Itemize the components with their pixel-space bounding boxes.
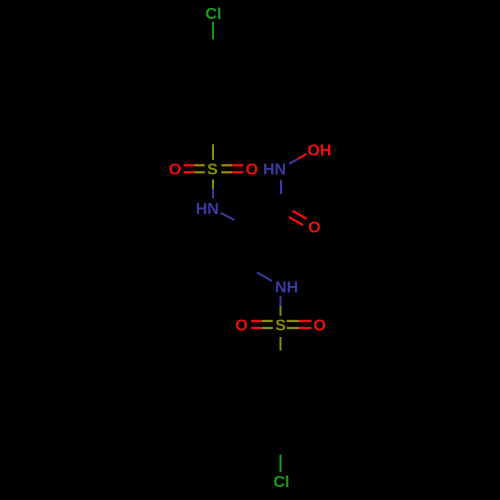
benzene ring 1 (carbon bonds, black on black): [179, 52, 247, 130]
svg-text:Cl: Cl: [205, 6, 221, 23]
svg-text:O: O: [235, 317, 247, 334]
bond C2-C4: [246, 228, 248, 267]
bond C2-C3: [247, 208, 281, 228]
bond S2-C(ring2): [280, 337, 282, 351]
bond C4-N3: [247, 267, 257, 273]
double bond S1=O (left): [184, 164, 195, 166]
svg-text:S: S: [207, 162, 218, 179]
double bond S1=O (right): [221, 164, 232, 166]
bond C3-N2: [280, 194, 282, 208]
svg-text:HN: HN: [196, 201, 219, 218]
bond C(ring2)-Cl2: [280, 442, 282, 455]
bond Cl1-C(ring1): [212, 22, 214, 39]
svg-text:S: S: [275, 317, 286, 334]
benzene ring 2 (carbon bonds, black on black): [247, 364, 315, 442]
svg-text:O: O: [246, 162, 258, 179]
bond C(ring1)-S1: [212, 130, 214, 144]
bond S1-N1: [212, 179, 214, 189]
svg-text:HN: HN: [263, 162, 286, 179]
double bond S2=O (right): [287, 320, 299, 322]
double bond C3=O2: [282, 205, 292, 211]
svg-text:O: O: [308, 220, 320, 237]
bond N1-C2: [221, 213, 235, 220]
double bond S2=O (left): [251, 320, 262, 322]
svg-text:O: O: [313, 317, 325, 334]
svg-text:NH: NH: [275, 279, 298, 296]
bond N3-S2: [280, 296, 282, 306]
bond N2-O3: [289, 159, 298, 164]
svg-text:OH: OH: [307, 142, 331, 159]
svg-text:O: O: [169, 162, 181, 179]
svg-text:Cl: Cl: [274, 474, 290, 491]
